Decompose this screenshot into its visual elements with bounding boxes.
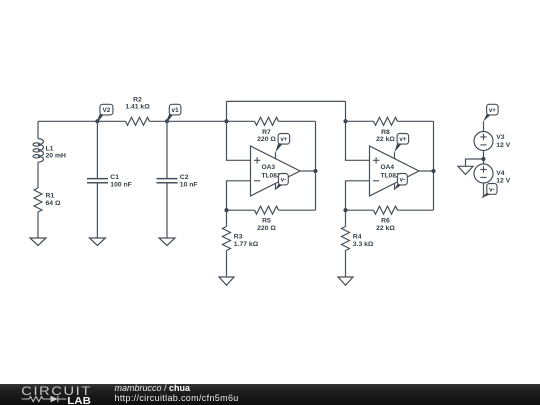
wire v1 to OA3 + node [167,120,227,122]
ground (L1 branch) [30,238,46,246]
junction R6/R4 [343,208,347,212]
OA4 V+ pin stub [394,152,396,159]
voltage source V3 12V [474,132,493,151]
svg-text:LAB: LAB [67,396,91,405]
resistor R2 1.41k [97,120,125,122]
junction R8 left [343,119,347,123]
resistor R1 64 ohm [34,188,42,212]
capacitor C1 100nF [87,179,108,183]
svg-text:1.41 kΩ: 1.41 kΩ [125,103,150,110]
flag v- (OA3) [275,183,283,190]
svg-text:v1: v1 [172,107,180,114]
svg-text:v-: v- [489,186,495,193]
resistor R5 220 ohm [227,209,255,211]
wire C2 to ground [166,183,168,238]
svg-text:http://circuitlab.com/cfn5m6u: http://circuitlab.com/cfn5m6u [115,393,239,403]
svg-text:OA3: OA3 [262,164,276,171]
ground (R3) [219,277,234,285]
logo resistor-diode underline [22,396,51,401]
junction V3/V4 [481,157,485,161]
svg-text:C2: C2 [180,174,189,181]
svg-text:20 mH: 20 mH [46,152,66,159]
wire R8 right down to output [433,121,435,210]
junction OA3 + node [224,119,228,123]
svg-text:10 nF: 10 nF [180,181,198,188]
wire V4 down [483,183,485,198]
OA3 V+ pin stub [275,152,277,159]
ground (supply midpoint) [458,166,473,174]
resistor R4 3.3k [345,210,347,226]
wire V2 to C1 top plate [96,121,98,178]
wire OA4 + input (down from top loop) [346,101,370,160]
svg-text:22 kΩ: 22 kΩ [376,136,395,143]
svg-text:v-: v- [400,177,406,184]
svg-text:1.77 kΩ: 1.77 kΩ [234,241,259,248]
op-amp OA4 (TL082) [370,146,420,196]
wire junction to V4 [483,159,485,164]
wire OA4 output [419,170,434,172]
svg-text:12 V: 12 V [496,178,510,185]
svg-text:R7: R7 [262,129,271,136]
junction OA3 output [313,169,317,173]
node v1 flag [166,113,172,121]
svg-text:C1: C1 [110,174,119,181]
ground (C2 branch) [159,238,175,246]
resistor R3 1.77k [226,210,228,226]
wire L1 to R1 [37,162,39,188]
ground (C1 branch) [89,238,105,246]
node V2 flag [97,113,104,121]
svg-text:R3: R3 [234,233,243,240]
op-amp OA3 (TL082) [251,146,301,196]
wire R7 right down to output [315,121,317,210]
resistor R6 22k [346,209,374,211]
svg-text:64 Ω: 64 Ω [46,200,61,207]
ground (R4) [338,277,353,285]
junction V2/C1 [95,119,99,123]
wire OA3 - input [227,181,251,210]
svg-text:V3: V3 [496,134,505,141]
svg-text:R4: R4 [353,233,362,240]
svg-text:V4: V4 [496,170,505,177]
svg-text:mambrucco / chua: mambrucco / chua [115,383,192,393]
wire junction to supply ground [466,159,484,166]
OA3 V- pin stub [275,183,277,190]
svg-text:100 nF: 100 nF [110,181,132,188]
footer bar [0,384,540,405]
junction R5/R3 [224,208,228,212]
svg-text:220 Ω: 220 Ω [257,136,276,143]
svg-text:22 kΩ: 22 kΩ [376,225,395,232]
svg-text:12 V: 12 V [496,142,510,149]
junction v1/C2 [165,119,169,123]
wire v1 to C2 [166,121,168,178]
resistor R7 220 ohm [227,120,255,122]
svg-text:R1: R1 [46,193,55,200]
wire V3 to junction [483,151,485,160]
wire top loop to OA4 [227,100,346,102]
wire OA3 output [300,170,316,172]
svg-text:3.3 kΩ: 3.3 kΩ [353,241,374,248]
svg-text:R5: R5 [262,218,271,225]
capacitor C2 10nF [157,179,178,183]
svg-text:R6: R6 [381,218,390,225]
wire OA3 + input loop (up/over) [227,101,251,160]
wire flag to V3 [483,121,485,131]
svg-text:v+: v+ [399,136,406,143]
voltage source V4 12V [474,164,493,183]
svg-text:OA4: OA4 [381,164,395,171]
junction OA4 output [431,169,435,173]
flag v- (V4) [481,192,492,198]
flag v+ (OA3) [275,142,282,153]
flag v- (OA4) [394,183,402,190]
flag v+ (OA4) [394,142,401,153]
wire top rail left [38,120,97,122]
svg-text:V2: V2 [102,107,110,114]
flag v+ (V3) [483,113,491,122]
wire C1 to ground [96,183,98,238]
svg-text:220 Ω: 220 Ω [257,225,276,232]
svg-text:v+: v+ [489,107,496,114]
resistor R8 22k [346,120,374,122]
svg-text:R8: R8 [381,129,390,136]
OA4 V- pin stub [394,183,396,190]
svg-text:v+: v+ [280,136,287,143]
inductor L1 [37,121,39,138]
svg-text:L1: L1 [46,145,54,152]
svg-text:v-: v- [281,177,287,184]
wire R1 to ground [37,212,39,238]
wire OA4 - input [346,181,370,210]
